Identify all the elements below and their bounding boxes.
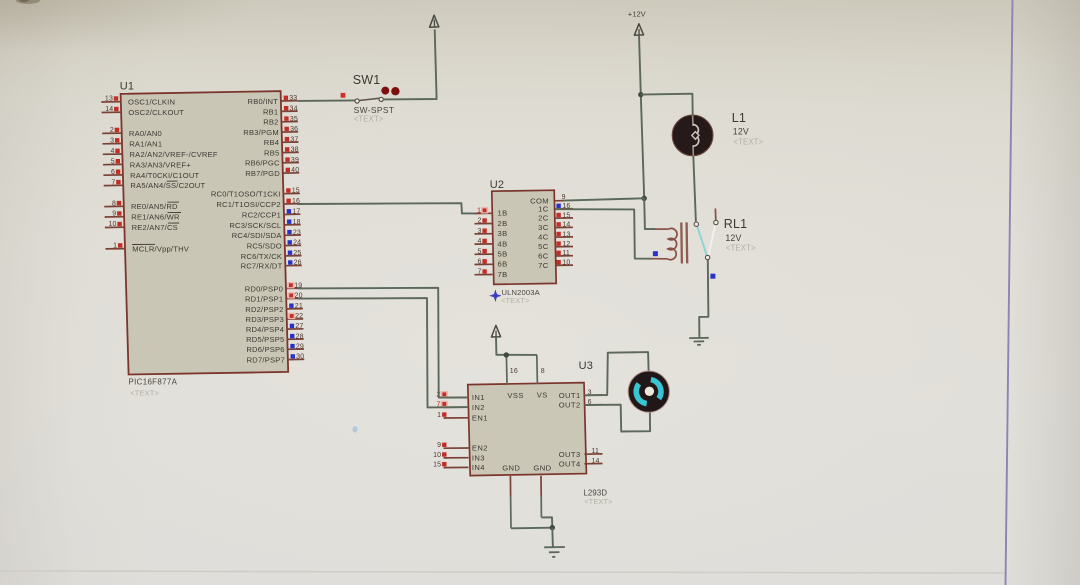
svg-text:GND: GND (502, 464, 520, 473)
svg-text:18: 18 (293, 219, 301, 226)
wire U3 GND pins to ground (511, 517, 552, 528)
svg-text:RE2/AN7/CS: RE2/AN7/CS (132, 223, 178, 232)
svg-text:OSC1/CLKIN: OSC1/CLKIN (128, 98, 175, 107)
node U2 designator label (490, 179, 504, 191)
power +5V arrow symbol at U3 (491, 325, 500, 337)
svg-text:34: 34 (290, 105, 298, 112)
svg-text:13: 13 (562, 231, 570, 238)
svg-text:IN4: IN4 (472, 463, 485, 472)
svg-text:10: 10 (433, 452, 441, 459)
node U3 designator label (579, 360, 593, 372)
svg-text:40: 40 (291, 167, 299, 174)
svg-text:4C: 4C (538, 233, 549, 242)
pin 14 OUT4 of U3 (559, 458, 603, 469)
svg-text:RD0/PSP0: RD0/PSP0 (245, 284, 283, 293)
pin 3 3B of U2 (475, 228, 508, 238)
pin 22 RD3/PSP3 of U1 (246, 313, 304, 324)
svg-text:5: 5 (111, 158, 115, 165)
pin 10 IN3 of U3 (433, 452, 485, 463)
wire relay common to ground (699, 260, 708, 338)
svg-text:+12V: +12V (628, 10, 647, 19)
svg-text:16: 16 (510, 368, 518, 375)
node SW1 designator label (353, 73, 381, 87)
svg-text:1: 1 (113, 243, 117, 250)
pin 16 RC1/T1OSI/CCP2 of U1 (216, 198, 300, 209)
node U2 part name ULN2003A (501, 288, 541, 305)
node SW1 red actuator dots (381, 87, 399, 96)
pin 20 RD1/PSP1 of U1 (245, 292, 303, 303)
pin 5 RA3/AN3/VREF+ of U1 (103, 158, 191, 169)
svg-text:RD2/PSP2: RD2/PSP2 (245, 305, 283, 314)
pin 30 RD7/PSP7 of U1 (247, 354, 305, 365)
svg-text:24: 24 (293, 240, 301, 247)
svg-text:U3: U3 (579, 360, 593, 372)
pin 4 4B of U2 (475, 238, 508, 248)
wire U3 OUT2 to motor bottom (584, 405, 650, 432)
svg-text:1C: 1C (538, 204, 549, 213)
svg-text:27: 27 (295, 323, 303, 330)
wire SW1 to power rail (383, 29, 436, 99)
pin 2 IN1 of U3 (436, 390, 485, 403)
power +12V arrow symbol right (634, 24, 643, 35)
svg-text:<TEXT>: <TEXT> (130, 388, 159, 397)
svg-text:4B: 4B (498, 239, 508, 248)
svg-text:RD5/PSP5: RD5/PSP5 (246, 335, 284, 344)
pin 16 1C of U2 (538, 203, 573, 213)
svg-text:3: 3 (110, 138, 114, 145)
node RL1 labels 12V (724, 217, 756, 252)
svg-text:17: 17 (292, 209, 300, 216)
node SW1 part name SW-SPST (354, 105, 395, 124)
pin 37 RB4 of U1 (264, 136, 299, 147)
wire +12V rail down (639, 35, 644, 198)
svg-text:15: 15 (562, 212, 570, 219)
svg-text:26: 26 (294, 260, 302, 267)
svg-text:2: 2 (110, 127, 114, 134)
switch SW1 (355, 97, 383, 103)
pin 14 3C of U2 (538, 222, 573, 232)
wire +12V to lamp L1 (641, 94, 693, 116)
svg-text:37: 37 (290, 136, 298, 143)
node faint bottom screen line (0, 571, 1005, 573)
node +12V label (628, 10, 647, 19)
pin 2 2B of U2 (475, 218, 508, 228)
svg-text:15: 15 (433, 462, 441, 469)
wire U1 RB0 pin33 to SW1 (297, 99, 355, 102)
pin 9 COM of U2 (555, 194, 566, 201)
node U2 COM label (530, 197, 549, 206)
svg-text:6: 6 (111, 169, 115, 176)
op-amp U3 motor driver L293D body (468, 383, 587, 476)
svg-text:<TEXT>: <TEXT> (584, 497, 612, 506)
pin 21 RD2/PSP2 of U1 (245, 303, 303, 314)
svg-text:RD4/PSP4: RD4/PSP4 (246, 325, 284, 334)
svg-text:VSS: VSS (507, 391, 523, 400)
pin 7 7B of U2 (475, 269, 508, 279)
svg-text:36: 36 (290, 126, 298, 133)
svg-text:13: 13 (105, 96, 113, 103)
pin 13 OSC1/CLKIN of U1 (101, 96, 175, 107)
node U2 blue origin star (490, 290, 501, 301)
svg-text:U1: U1 (120, 81, 134, 93)
pin 29 RD6/PSP6 of U1 (246, 343, 304, 354)
svg-text:22: 22 (295, 313, 303, 320)
pin 28 RD5/PSP5 of U1 (246, 333, 304, 344)
svg-text:7B: 7B (498, 270, 508, 279)
svg-text:RB5: RB5 (264, 149, 279, 158)
svg-text:RB3/PGM: RB3/PGM (243, 128, 279, 137)
svg-text:7: 7 (478, 269, 482, 276)
pin 11 OUT3 of U3 (559, 448, 603, 459)
svg-text:RA0/AN0: RA0/AN0 (129, 129, 162, 138)
svg-text:RC3/SCK/SCL: RC3/SCK/SCL (229, 221, 281, 230)
pin 14 OSC2/CLKOUT of U1 (102, 106, 185, 117)
wire relay coil top feed (644, 198, 655, 229)
svg-text:14: 14 (592, 458, 600, 465)
pin 3 OUT1 of U3 (559, 389, 603, 400)
node U1 active-low overlines (132, 181, 181, 244)
svg-text:4: 4 (478, 238, 482, 245)
svg-text:<TEXT>: <TEXT> (733, 137, 763, 146)
pin 6 RA4/T0CKI/C1OUT of U1 (103, 169, 199, 180)
svg-text:RB4: RB4 (264, 138, 279, 147)
pin 38 RB5 of U1 (264, 147, 299, 158)
pin 6 OUT2 of U3 (559, 399, 603, 410)
svg-text:14: 14 (562, 222, 570, 229)
svg-text:<TEXT>: <TEXT> (501, 296, 529, 305)
pin 7 IN2 of U3 (436, 399, 485, 412)
svg-text:3: 3 (478, 228, 482, 235)
node top-left dark speck (16, 0, 40, 4)
ground symbol U3 (544, 547, 565, 557)
svg-text:RE0/AN5/RD: RE0/AN5/RD (131, 202, 178, 211)
svg-text:RD7/PSP7: RD7/PSP7 (247, 356, 285, 365)
svg-text:35: 35 (290, 116, 298, 123)
pin 1 MCLR/Vpp/THV of U1 (106, 243, 190, 254)
svg-text:RA3/AN3/VREF+: RA3/AN3/VREF+ (130, 160, 191, 169)
wire U1 RC1 pin16 to U2 1B pin1 (297, 203, 474, 213)
svg-text:U2: U2 (490, 179, 504, 191)
svg-text:5C: 5C (538, 242, 549, 251)
svg-text:RC6/TX/CK: RC6/TX/CK (241, 252, 282, 261)
op-amp U2 darlington array ULN2003A body (492, 190, 556, 284)
pin 1 EN1 of U3 (437, 412, 488, 423)
pin 15 RC0/T1OSO/T1CKI of U1 (211, 188, 300, 199)
svg-text:10: 10 (108, 221, 116, 228)
svg-text:25: 25 (293, 250, 301, 257)
svg-text:IN2: IN2 (472, 403, 485, 412)
pin 40 RB7/PGD of U1 (245, 167, 299, 178)
lamp L1 (672, 115, 713, 156)
svg-text:RC4/SDI/SDA: RC4/SDI/SDA (232, 231, 283, 240)
pin 10 RE2/AN7/CS of U1 (105, 221, 178, 232)
pin 34 RB1 of U1 (263, 105, 298, 116)
pin GND GND of U3 bottom right (533, 463, 551, 517)
svg-text:VS: VS (537, 391, 548, 400)
op-amp U1 microcontroller PIC16F877A body (121, 91, 289, 374)
pin 2 RA0/AN0 of U1 (102, 127, 162, 138)
svg-text:EN2: EN2 (472, 444, 488, 453)
pin 11 6C of U2 (538, 250, 573, 260)
svg-text:OUT3: OUT3 (559, 450, 581, 459)
svg-text:SW-SPST: SW-SPST (354, 105, 395, 115)
pin 6 6B of U2 (475, 259, 508, 269)
svg-text:12V: 12V (725, 233, 741, 243)
svg-text:12: 12 (562, 241, 570, 248)
pin 8 RE0/AN5/RD of U1 (104, 200, 178, 211)
pin 23 RC4/SDI/SDA of U1 (232, 229, 301, 240)
pin 17 RC2/CCP1 of U1 (242, 209, 300, 220)
svg-text:1B: 1B (498, 209, 508, 218)
svg-text:10: 10 (562, 260, 570, 267)
svg-text:RB6/PGC: RB6/PGC (245, 159, 280, 168)
svg-text:23: 23 (293, 229, 301, 236)
svg-text:6C: 6C (538, 251, 549, 260)
ground symbol relay (689, 338, 709, 345)
wire U1 RD1 pin20 to U3 IN2 (298, 298, 469, 407)
node junction VSS feed (504, 352, 509, 357)
svg-text:RD1/PSP1: RD1/PSP1 (245, 295, 283, 304)
svg-text:11: 11 (592, 448, 600, 455)
svg-text:SW1: SW1 (353, 73, 381, 87)
pin 24 RC5/SDO of U1 (247, 240, 301, 251)
node U1 designator label (120, 81, 134, 93)
pin 26 RC7/RX/DT of U1 (241, 260, 302, 271)
svg-text:RD3/PSP3: RD3/PSP3 (246, 315, 284, 324)
motor M1 (628, 371, 669, 412)
wire U2 COM pin9 to +12V rail (564, 198, 645, 200)
svg-text:14: 14 (105, 106, 113, 113)
svg-text:1: 1 (477, 206, 481, 215)
svg-text:12V: 12V (733, 127, 749, 137)
svg-text:3C: 3C (538, 223, 549, 232)
svg-text:2B: 2B (498, 219, 508, 228)
wire U1 RD0 pin19 to U3 IN1 (298, 288, 469, 398)
pin 36 RB3/PGM of U1 (243, 126, 298, 137)
svg-text:RB0/INT: RB0/INT (248, 97, 279, 106)
svg-text:OSC2/CLKOUT: OSC2/CLKOUT (128, 108, 184, 117)
svg-text:9: 9 (112, 211, 116, 218)
wire U3 OUT1 to motor top (584, 352, 648, 395)
pin 27 RD4/PSP4 of U1 (246, 323, 304, 334)
pin 18 RC3/SCK/SCL of U1 (229, 219, 300, 230)
svg-text:RL1: RL1 (724, 217, 747, 231)
node U3 part name L293D (583, 489, 612, 506)
wire U3 power to VSS and VS (496, 337, 537, 355)
svg-text:RA5/AN4/SS/C2OUT: RA5/AN4/SS/C2OUT (130, 181, 205, 190)
svg-text:IN1: IN1 (472, 393, 485, 402)
pin 16 VSS of U3 (506, 355, 523, 400)
wire U2 1C pin16 to relay coil (555, 209, 652, 259)
pin 35 RB2 of U1 (263, 116, 298, 127)
svg-text:33: 33 (289, 95, 297, 102)
svg-text:29: 29 (296, 343, 304, 350)
svg-text:RC5/SDO: RC5/SDO (247, 242, 282, 251)
pin 4 RA2/AN2/VREF-/CVREF of U1 (103, 148, 218, 159)
pin 3 RA1/AN1 of U1 (103, 138, 163, 149)
svg-text:RB2: RB2 (263, 118, 278, 127)
pin 7 RA5/AN4/SS/C2OUT of U1 (104, 179, 206, 190)
pin 15 IN4 of U3 (433, 462, 485, 473)
svg-text:<TEXT>: <TEXT> (726, 244, 756, 253)
svg-text:7: 7 (111, 179, 115, 186)
svg-text:RC0/T1OSO/T1CKI: RC0/T1OSO/T1CKI (211, 190, 281, 199)
node faint blue smudge (352, 426, 357, 432)
svg-text:EN1: EN1 (472, 413, 488, 422)
svg-text:9: 9 (437, 442, 441, 449)
svg-text:6B: 6B (498, 260, 508, 269)
pin 5 5B of U2 (475, 248, 508, 258)
svg-text:5: 5 (478, 248, 482, 255)
pin 9 EN2 of U3 (437, 442, 488, 453)
svg-text:RB1: RB1 (263, 107, 278, 116)
svg-text:5B: 5B (498, 250, 508, 259)
pin 25 RC6/TX/CK of U1 (241, 250, 302, 261)
pin 15 2C of U2 (538, 212, 573, 222)
svg-text:L1: L1 (732, 111, 746, 125)
pin 19 RD0/PSP0 of U1 (245, 282, 303, 293)
node L1 labels 12V (732, 111, 764, 146)
svg-text:OUT4: OUT4 (559, 459, 581, 468)
pin 9 RE1/AN6/WR of U1 (105, 211, 180, 222)
svg-text:39: 39 (291, 157, 299, 164)
node U1 part value PIC16F877A (129, 378, 178, 398)
svg-text:RC1/T1OSI/CCP2: RC1/T1OSI/CCP2 (216, 200, 280, 209)
pin 1 1B of U2 (475, 206, 508, 218)
svg-text:6: 6 (478, 259, 482, 266)
pin 10 7C of U2 (538, 260, 573, 270)
svg-text:11: 11 (562, 250, 570, 257)
node junction +12V to lamp (638, 92, 643, 97)
svg-text:OUT2: OUT2 (559, 401, 581, 410)
pin GND GND of U3 bottom left (502, 464, 520, 529)
svg-text:7C: 7C (538, 261, 549, 270)
wire lamp L1 to relay contact (693, 156, 696, 222)
svg-text:RA4/T0CKI/C1OUT: RA4/T0CKI/C1OUT (130, 171, 199, 180)
svg-text:IN3: IN3 (472, 453, 485, 462)
relay RL1 changeover contact (694, 209, 718, 260)
node blue marker near relay coil (653, 251, 658, 256)
svg-text:30: 30 (296, 354, 304, 361)
node junction +12V rail to relay coil and U2 COM (642, 196, 647, 201)
svg-text:RC2/CCP1: RC2/CCP1 (242, 210, 281, 219)
relay RL1 coil (652, 222, 687, 263)
svg-text:38: 38 (291, 147, 299, 154)
svg-text:RA2/AN2/VREF-/CVREF: RA2/AN2/VREF-/CVREF (130, 150, 218, 159)
svg-text:3B: 3B (498, 229, 508, 238)
svg-text:21: 21 (295, 303, 303, 310)
svg-text:2C: 2C (538, 214, 549, 223)
svg-text:<TEXT>: <TEXT> (354, 115, 384, 124)
pin 13 4C of U2 (538, 231, 573, 241)
svg-text:OUT1: OUT1 (559, 391, 581, 400)
node purple window edge line (1006, 0, 1013, 585)
svg-text:8: 8 (112, 200, 116, 207)
svg-text:RC7/RX/DT: RC7/RX/DT (241, 262, 283, 271)
node red wire marker on RB0 wire (341, 93, 346, 98)
node blue marker under relay contact (710, 274, 715, 279)
svg-text:1: 1 (437, 412, 441, 419)
svg-text:RE1/AN6/WR: RE1/AN6/WR (131, 213, 180, 222)
wire ground stem U3 (551, 528, 554, 547)
svg-text:RB7/PGD: RB7/PGD (245, 169, 280, 178)
svg-text:2: 2 (478, 218, 482, 225)
power +12V arrow symbol left (430, 15, 439, 27)
svg-text:8: 8 (541, 368, 545, 375)
svg-text:GND: GND (533, 463, 551, 472)
pin 39 RB6/PGC of U1 (245, 157, 299, 168)
pin 12 5C of U2 (538, 241, 573, 251)
node junction U3 ground (550, 525, 555, 530)
svg-text:28: 28 (296, 333, 304, 340)
svg-text:MCLR/Vpp/THV: MCLR/Vpp/THV (132, 245, 190, 254)
pin 8 VS of U3 (537, 355, 548, 400)
svg-text:PIC16F877A: PIC16F877A (129, 378, 178, 387)
svg-text:RD6/PSP6: RD6/PSP6 (246, 345, 284, 354)
svg-text:4: 4 (110, 148, 114, 155)
svg-text:15: 15 (292, 188, 300, 195)
svg-text:RA1/AN1: RA1/AN1 (129, 139, 162, 148)
pin 33 RB0/INT of U1 (248, 95, 298, 106)
